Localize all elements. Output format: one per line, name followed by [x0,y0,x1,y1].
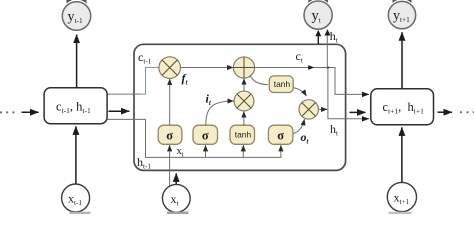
wire: sigma1 up to multiply f [169,79,171,125]
block c_{t-1}, h_{t-1} [44,88,107,124]
wire: h_t vertical up (with hop over c_t line) [326,35,329,109]
wire: branch up into sigma2 [205,145,207,157]
wire: right ellipsis dots [460,111,474,113]
svg-text:ht: ht [330,29,338,45]
wire: multiply i up into add [243,79,245,92]
arrowhead on c_t line [308,65,314,70]
gate tanh (candidate) [230,125,255,144]
wire: x_t up into sigma1 [169,145,171,186]
node y_{t+1} [388,1,415,28]
LSTM cell body [134,44,346,170]
node x_{t+1} [387,182,416,211]
arrowhead on c_t line at h crossing [327,66,331,69]
svg-text:σ: σ [202,128,209,142]
wire: left ellipsis dots [0,111,14,113]
wire: tanh gate up into multiply i [243,111,245,125]
wire: h_{t-1} from block along cell bottom to sigma3 [108,119,281,157]
wire: x_t arrow into cell [175,173,177,184]
node x_{t-1} [62,184,90,212]
svg-text:tanh: tanh [235,130,252,140]
wire: arrow cell into right block [350,111,366,113]
wire: add curve into tanh output [250,75,268,84]
wire: arrow block into cell [109,110,130,112]
wire: tanh output curve into multiply o [293,88,306,96]
op: multiply i [234,91,254,111]
wire: arrow into left block [22,111,39,113]
wire: c_{t-1} from block into cell (blue-gray) [108,93,142,95]
wire: right block to ellipsis [438,111,453,113]
block c_{t+1}, h_{t+1} [371,89,434,125]
svg-text:σ: σ [277,128,284,142]
wire: right block to y_{t+1} [401,32,403,88]
svg-text:tanh: tanh [274,79,291,89]
svg-text:σ: σ [166,128,173,142]
gate sigma1 [158,125,182,144]
wire: x_{t-1} to block [75,126,77,184]
gate sigma3 [268,125,293,144]
wire: multiply o to h junction [318,108,327,110]
wire: x_{t+1} to right block [401,127,403,182]
op: add [233,57,254,78]
wire: sigma3 curve into multiply o [293,119,304,133]
wire: c_t line from add to right block (with corner down) [255,68,369,95]
node y_t [304,1,332,29]
op: multiply o [299,100,318,119]
wire: h_t down and right to next block [328,109,369,118]
wire: block to y_{t-1} [76,35,78,88]
wire: multiply f to add [181,67,234,69]
op: multiply f [159,57,181,79]
node y_{t-1} [62,2,90,30]
gate tanh (output) [269,76,293,93]
wire: branch up into tanh gate [242,145,244,157]
wire: y_t arrow from cell top [317,36,319,44]
node x_t [162,184,190,212]
wire: sigma2 curve into multiply i [206,101,234,125]
gate sigma2 [193,125,218,144]
